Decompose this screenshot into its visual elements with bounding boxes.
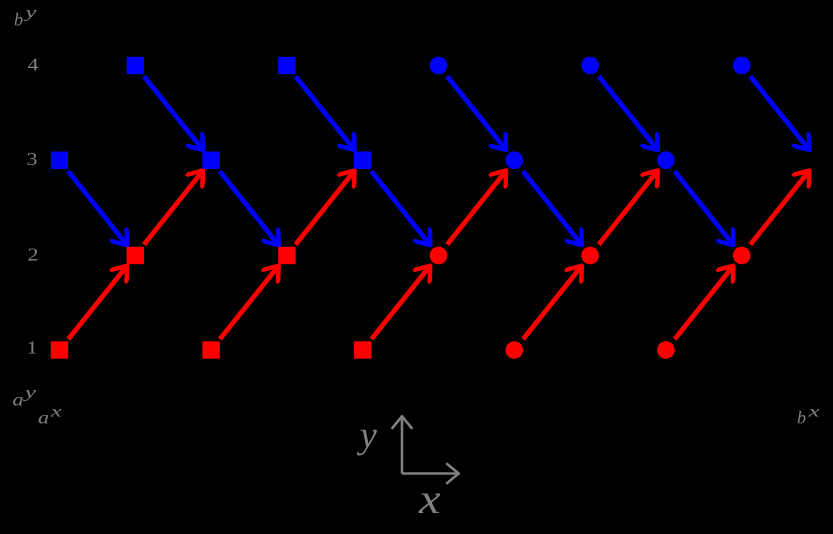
svg-text:x: x [49, 404, 62, 421]
svg-text:2: 2 [28, 245, 39, 265]
svg-text:y: y [22, 384, 37, 401]
svg-text:4: 4 [28, 54, 39, 74]
svg-text:a: a [13, 390, 24, 410]
svg-text:a: a [38, 408, 49, 428]
svg-text:x: x [418, 477, 441, 523]
svg-text:y: y [22, 5, 37, 22]
svg-text:3: 3 [27, 149, 38, 169]
svg-text:x: x [807, 404, 820, 421]
svg-text:1: 1 [27, 338, 38, 358]
svg-text:b: b [14, 10, 23, 30]
svg-text:b: b [797, 407, 806, 427]
svg-text:y: y [356, 415, 377, 457]
